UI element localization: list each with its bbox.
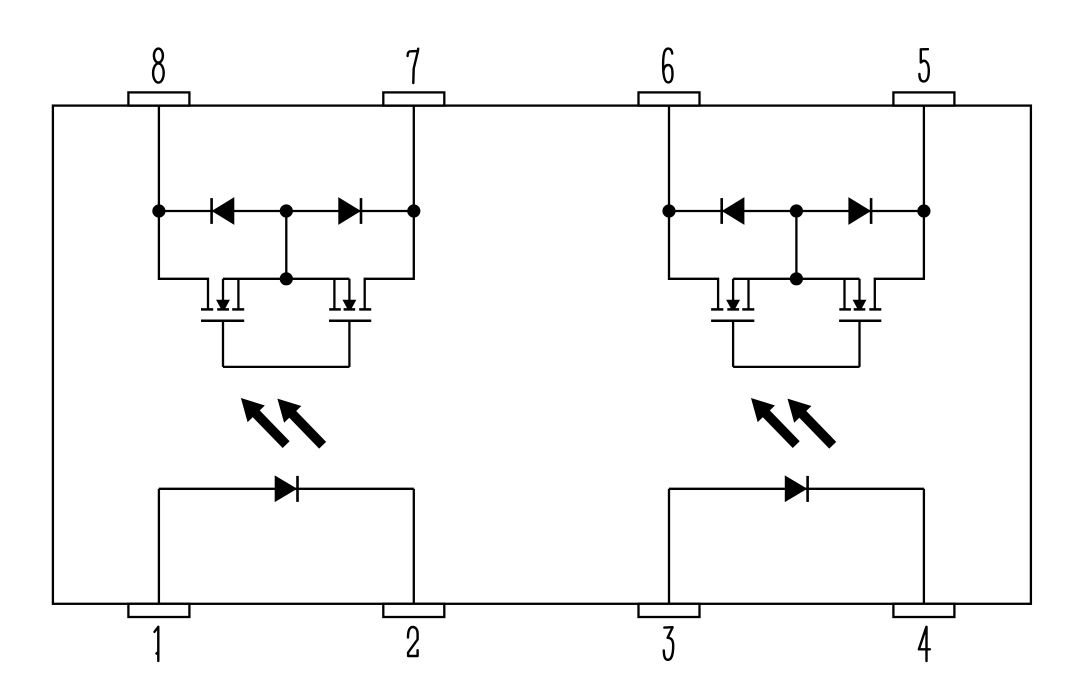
wire: pin 6 to left MOSFET drain [669, 211, 718, 309]
wire: pin 5 to right MOSFET drain [875, 211, 924, 309]
wire: pin 8 lead [158, 106, 160, 211]
wire: LED top rail [669, 488, 924, 490]
wire: gate-protection diode row [669, 210, 924, 212]
wire: LED cathode to pin 4 lead [923, 489, 925, 604]
wire: LED cathode to pin 2 lead [413, 489, 415, 604]
wire: pin 7 lead [413, 106, 415, 211]
junction node at pin 5 line [917, 204, 930, 217]
wire: centre stem to source bus [285, 211, 287, 279]
light coupling arrow 2 [269, 390, 331, 453]
transistor Q5 (MOSFET) [839, 279, 881, 367]
junction node at pin 6 line [662, 204, 675, 217]
pin 6 pad [639, 92, 700, 105]
pin 3 pad [639, 604, 700, 617]
junction node on source bus [790, 272, 803, 285]
pin 2 number label [408, 627, 418, 656]
wire: common source bus [733, 278, 859, 280]
light coupling arrow 1 [742, 390, 804, 453]
transistor Q7 (MOSFET) [329, 279, 371, 367]
junction node on source bus [280, 272, 293, 285]
junction node at diode centre [280, 204, 293, 217]
wire: pin 6 lead [668, 106, 670, 211]
pin 4 pad [893, 604, 954, 617]
pin 2 pad [383, 604, 444, 617]
wire: LED top rail [159, 488, 414, 490]
pin 1 pad [128, 604, 189, 617]
diode D6a (cathode left) [722, 198, 744, 224]
diode D5b (cathode right) [849, 198, 871, 224]
light coupling arrow 1 [232, 390, 294, 453]
pin 5 pad [893, 92, 954, 105]
pin 7 number label [408, 49, 419, 83]
wire: pin 5 lead [923, 106, 925, 211]
wire: pin 1 lead to LED anode [158, 489, 160, 604]
LED (infrared emitter) between pins 1 and 2 [275, 476, 297, 502]
transistor Q6 (MOSFET) [711, 279, 754, 367]
pin 8 number label [153, 49, 164, 83]
LED (infrared emitter) between pins 3 and 4 [785, 476, 807, 502]
pin 3 number label [664, 627, 673, 660]
diode D7b (cathode right) [339, 198, 361, 224]
junction node at pin 8 line [152, 204, 165, 217]
pin 7 pad [383, 92, 444, 105]
wire: common source bus [223, 278, 349, 280]
package outline [53, 106, 1031, 604]
pin 8 pad [128, 92, 189, 105]
transistor Q8 (MOSFET) [201, 279, 244, 367]
channel 1 (pins 8,7 / 1,2) [152, 106, 420, 604]
pin 1 number label [155, 627, 159, 661]
wire: pin 8 to left MOSFET drain [159, 211, 208, 309]
pin 4 number label [919, 627, 930, 661]
diode D8a (cathode left) [212, 198, 234, 224]
wire: pin 7 to right MOSFET drain [365, 211, 414, 309]
wire: pin 3 lead to LED anode [668, 489, 670, 604]
junction node at pin 7 line [407, 204, 420, 217]
wire: centre stem to source bus [795, 211, 797, 279]
light coupling arrow 2 [779, 390, 841, 453]
wire: gate interconnect [223, 366, 349, 368]
junction node at diode centre [790, 204, 803, 217]
pin 5 number label [919, 49, 928, 81]
wire: gate interconnect [733, 366, 859, 368]
pin 6 number label [663, 49, 672, 83]
channel 2 (pins 6,5 / 3,4) [662, 106, 930, 604]
wire: gate-protection diode row [159, 210, 414, 212]
